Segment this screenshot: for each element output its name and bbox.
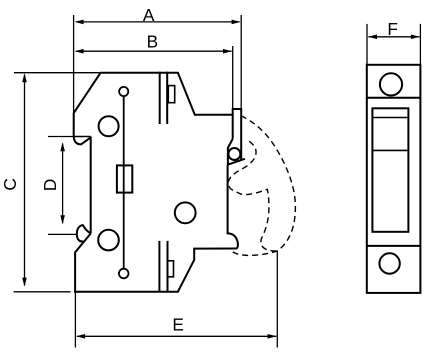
- DIN clip hook: [228, 139, 245, 165]
- arrowhead C top: [22, 73, 27, 82]
- dimension line A: [76, 21, 240, 23]
- bottom terminal right line: [167, 241, 169, 292]
- dimension line E: [77, 335, 276, 337]
- front view: window upper line: [372, 117, 408, 119]
- side view: bottom right foot and right edge: [228, 165, 238, 249]
- lower mounting hole: [98, 230, 119, 251]
- DIN clip bar right edge: [240, 108, 242, 160]
- svg-text:E: E: [172, 314, 184, 334]
- front view: window lower line: [372, 149, 408, 151]
- dimension line C: [24, 75, 26, 286]
- arrowhead A left: [75, 20, 84, 25]
- arrowhead F right: [411, 35, 420, 40]
- extension line A right: [240, 15, 242, 108]
- arrowhead D top: [60, 142, 65, 151]
- dimension line B: [76, 50, 232, 52]
- svg-text:C: C: [0, 178, 20, 190]
- side view: top edge and right shoulder: [100, 73, 233, 115]
- extension line C bottom: [14, 291, 71, 293]
- front view: fuse window: [372, 108, 408, 232]
- side view: rail slot top shelf: [74, 136, 91, 138]
- svg-text:F: F: [387, 19, 398, 39]
- DIN clip pivot circle: [228, 148, 240, 160]
- front view: lower divider: [367, 245, 421, 247]
- top terminal screw block: [168, 86, 174, 103]
- side view: rail slot bottom claw lower curve: [77, 234, 85, 241]
- front view: outer case: [367, 65, 421, 293]
- arrowhead D bottom: [60, 215, 65, 224]
- top terminal right line: [166, 72, 168, 124]
- front view: top screw hole: [380, 73, 402, 95]
- dimension line F: [369, 36, 420, 38]
- front view: upper divider: [367, 97, 421, 99]
- extension line E left: [74, 292, 76, 348]
- extension line B right: [232, 46, 234, 108]
- arrowhead E right: [268, 334, 277, 339]
- top terminal left line: [159, 72, 161, 124]
- upper mounting hole: [99, 116, 119, 136]
- svg-text:A: A: [143, 5, 155, 25]
- arrowhead C bottom: [22, 278, 27, 287]
- arrowhead F left: [368, 35, 377, 40]
- side view: rail slot bottom claw upper curve: [77, 225, 91, 234]
- arrowhead B left: [75, 49, 84, 54]
- fuse link wire: [123, 96, 125, 269]
- extension line A/B left: [73, 15, 75, 112]
- arrowhead B right: [223, 49, 232, 54]
- side view: rail slot back wall: [90, 137, 92, 234]
- dashed clip travel outer outline: [232, 116, 296, 256]
- extension line F left: [366, 24, 368, 64]
- fuse link top eyelet: [119, 87, 128, 96]
- side view: left chamfer and left edge: [74, 73, 101, 137]
- extension line D top: [48, 136, 74, 138]
- svg-text:B: B: [147, 31, 159, 51]
- extension line D bottom: [48, 233, 77, 235]
- fuse link bottom eyelet: [119, 269, 129, 279]
- bottom terminal left line: [158, 241, 160, 292]
- extension line C top: [14, 72, 100, 74]
- fuse element body: [117, 165, 132, 192]
- svg-text:D: D: [40, 179, 60, 191]
- side view: lower outline (diagonal, bottom, right step): [75, 234, 237, 292]
- dimension line D: [62, 144, 64, 224]
- dashed clip travel inner outline: [228, 141, 277, 251]
- front view: bottom screw hole: [379, 253, 399, 273]
- DIN clip bar top connector: [233, 108, 242, 110]
- center hole: [175, 202, 196, 223]
- arrowhead E left: [76, 334, 85, 339]
- extension line F right: [419, 24, 421, 64]
- bottom terminal screw block: [168, 261, 174, 277]
- extension line E right: [276, 251, 278, 348]
- DIN clip bar left edge: [232, 108, 234, 139]
- side view: rail slot top claw: [74, 137, 91, 145]
- arrowhead A right: [232, 20, 241, 25]
